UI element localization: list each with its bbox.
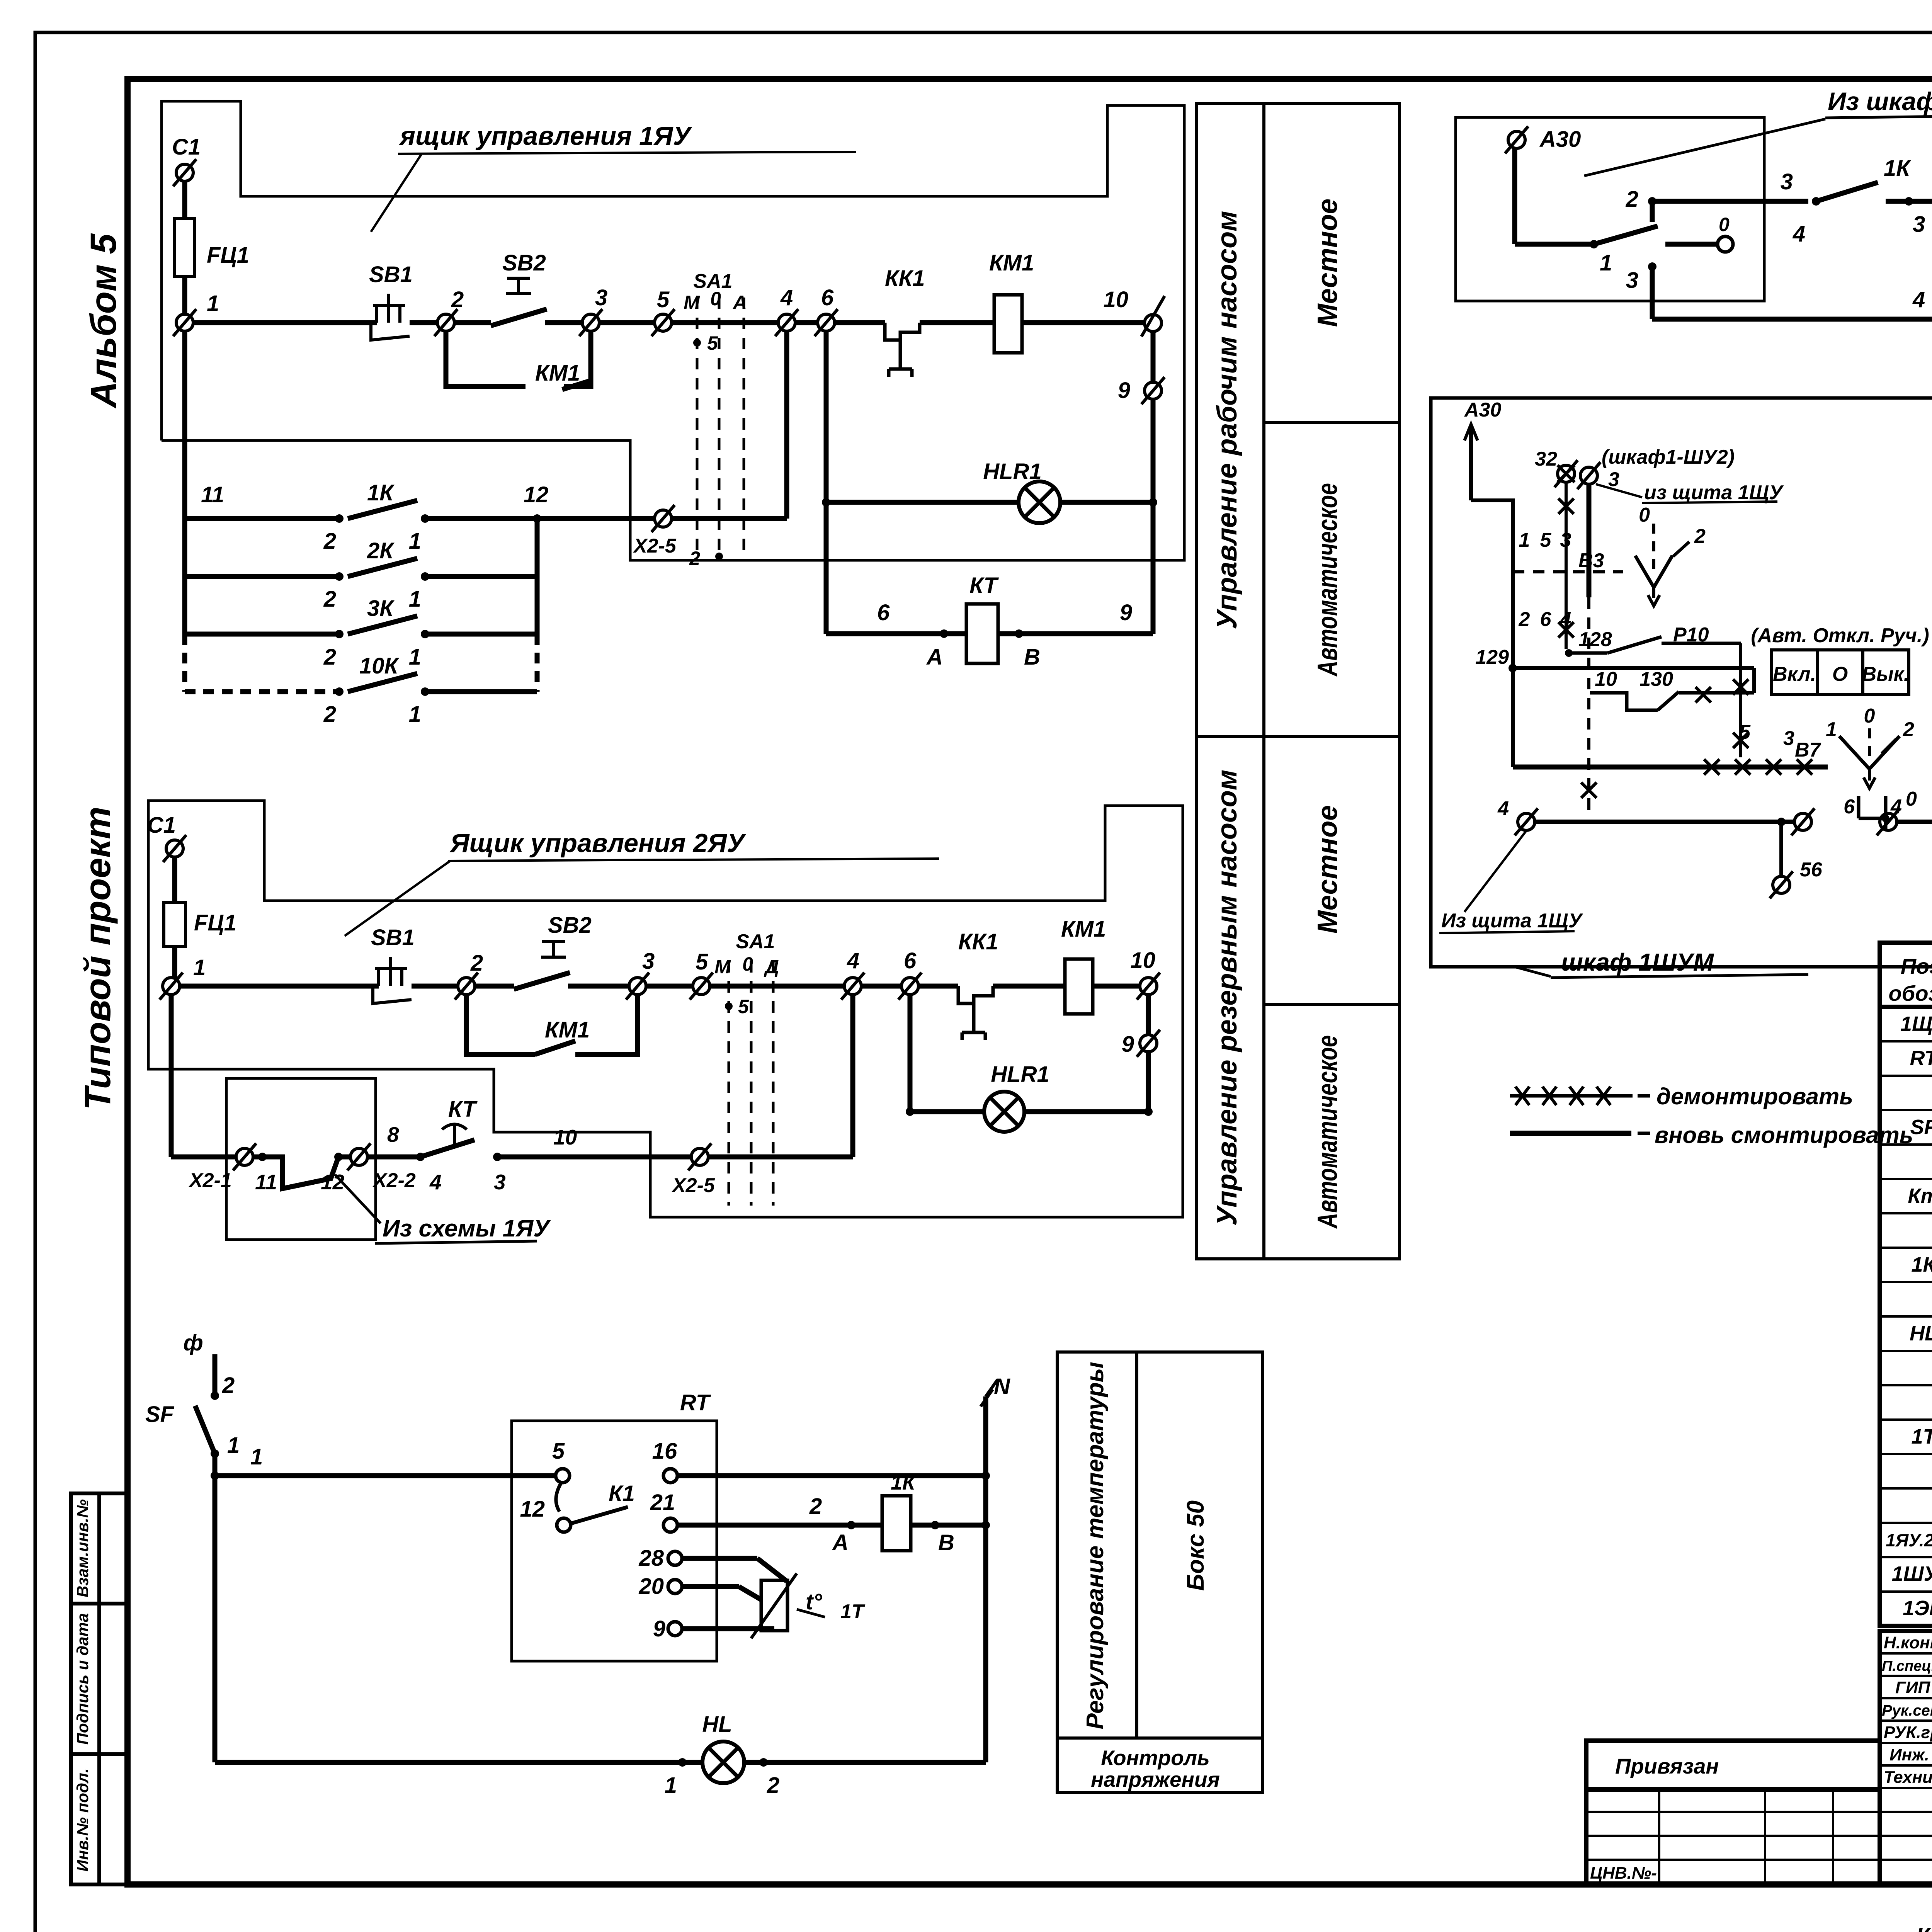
svg-text:X2-1: X2-1 xyxy=(188,1169,232,1192)
svg-text:2К: 2К xyxy=(367,538,395,563)
svg-text:SB2: SB2 xyxy=(548,913,592,938)
svg-text:HLR1: HLR1 xyxy=(991,1062,1049,1087)
svg-text:КТ: КТ xyxy=(448,1097,478,1122)
svg-text:X2-5: X2-5 xyxy=(671,1174,715,1197)
svg-text:2: 2 xyxy=(323,645,336,670)
svg-text:Из щита 1ЩУ: Из щита 1ЩУ xyxy=(1441,910,1583,932)
svg-text:Автоматическое: Автоматическое xyxy=(1312,483,1343,677)
svg-text:КМ1: КМ1 xyxy=(989,250,1034,276)
svg-text:Из шкафа 1ШУМ: Из шкафа 1ШУМ xyxy=(1828,87,1932,116)
svg-text:6: 6 xyxy=(1540,608,1552,631)
svg-text:Вкл.: Вкл. xyxy=(1773,663,1816,685)
svg-text:1ЯУ.2ЯУ: 1ЯУ.2ЯУ xyxy=(1886,1530,1932,1550)
svg-text:10К: 10К xyxy=(359,653,400,679)
svg-text:Техник: Техник xyxy=(1884,1768,1932,1787)
svg-text:КМ1: КМ1 xyxy=(1061,917,1106,942)
svg-text:1Т: 1Т xyxy=(1911,1425,1932,1448)
svg-text:1Т: 1Т xyxy=(840,1600,866,1623)
svg-text:2: 2 xyxy=(1903,718,1914,741)
svg-text:1ЩУ: 1ЩУ xyxy=(1900,1012,1932,1036)
svg-text:Управление резервным насосом: Управление резервным насосом xyxy=(1212,770,1243,1226)
svg-text:А: А xyxy=(732,292,747,313)
svg-text:шкаф 1ШУМ: шкаф 1ШУМ xyxy=(1561,948,1714,976)
svg-text:12: 12 xyxy=(524,482,549,507)
svg-text:А30: А30 xyxy=(1539,127,1581,152)
svg-text:Привязан: Привязан xyxy=(1615,1754,1719,1778)
svg-text:5: 5 xyxy=(552,1439,565,1464)
svg-text:9: 9 xyxy=(653,1616,665,1641)
svg-text:3: 3 xyxy=(1781,169,1793,194)
svg-text:обозн.: обозн. xyxy=(1888,981,1932,1005)
svg-text:5: 5 xyxy=(1540,529,1552,551)
svg-text:1К: 1К xyxy=(1884,156,1911,181)
svg-text:3: 3 xyxy=(1560,529,1571,551)
svg-text:130: 130 xyxy=(1639,668,1673,690)
svg-text:1: 1 xyxy=(1519,529,1530,551)
svg-text:Поз.: Поз. xyxy=(1901,954,1932,978)
svg-text:6: 6 xyxy=(1844,796,1855,818)
svg-text:4: 4 xyxy=(1793,221,1805,247)
svg-text:Н.контр.: Н.контр. xyxy=(1884,1633,1932,1652)
svg-text:1: 1 xyxy=(1600,250,1612,276)
svg-text:Р10: Р10 xyxy=(1673,624,1709,646)
svg-text:1: 1 xyxy=(409,587,421,612)
svg-text:SF: SF xyxy=(145,1402,175,1427)
svg-text:2: 2 xyxy=(767,1773,779,1798)
svg-text:О: О xyxy=(1832,663,1848,685)
svg-text:Альбом 5: Альбом 5 xyxy=(83,233,124,409)
svg-text:10: 10 xyxy=(1103,287,1128,312)
svg-text:2: 2 xyxy=(323,529,336,554)
svg-text:4: 4 xyxy=(1912,287,1925,312)
svg-text:4: 4 xyxy=(1497,798,1509,820)
svg-text:С1: С1 xyxy=(172,134,201,160)
svg-text:А: А xyxy=(926,645,943,670)
svg-text:RT: RT xyxy=(1910,1047,1932,1070)
svg-text:В: В xyxy=(938,1530,954,1555)
svg-text:FЦ1: FЦ1 xyxy=(194,910,236,935)
svg-text:Бокс 50: Бокс 50 xyxy=(1182,1500,1209,1591)
svg-text:4: 4 xyxy=(780,285,793,310)
svg-text:В: В xyxy=(1024,645,1040,670)
svg-text:3К: 3К xyxy=(367,596,395,621)
svg-text:3: 3 xyxy=(595,285,607,310)
svg-text:X2-5: X2-5 xyxy=(633,535,677,557)
svg-text:6: 6 xyxy=(821,285,834,310)
svg-text:0: 0 xyxy=(1639,504,1650,526)
svg-text:2: 2 xyxy=(222,1373,235,1398)
svg-text:4: 4 xyxy=(1890,796,1902,818)
svg-text:1К: 1К xyxy=(1911,1253,1932,1276)
svg-text:1К: 1К xyxy=(367,480,395,505)
svg-text:0: 0 xyxy=(710,288,721,310)
svg-text:Взам.инв.№: Взам.инв.№ xyxy=(73,1499,92,1597)
svg-text:9: 9 xyxy=(1120,600,1132,625)
svg-text:П.спец.отд: П.спец.отд xyxy=(1882,1658,1932,1674)
svg-text:10: 10 xyxy=(553,1125,577,1149)
svg-text:(Авт. Откл. Руч.): (Авт. Откл. Руч.) xyxy=(1751,624,1929,647)
svg-text:1: 1 xyxy=(250,1444,263,1469)
svg-text:1ШУМ: 1ШУМ xyxy=(1892,1562,1932,1585)
svg-text:128: 128 xyxy=(1578,628,1612,651)
svg-text:0: 0 xyxy=(1906,788,1917,810)
svg-text:КК1: КК1 xyxy=(958,929,998,954)
svg-text:HL: HL xyxy=(702,1712,732,1737)
svg-text:1: 1 xyxy=(1826,718,1837,741)
svg-text:3: 3 xyxy=(494,1170,506,1194)
svg-text:3: 3 xyxy=(1913,212,1925,237)
svg-text:10: 10 xyxy=(1595,668,1617,690)
svg-text:Типовой проект: Типовой проект xyxy=(77,806,118,1110)
svg-text:HL: HL xyxy=(1910,1322,1932,1345)
svg-text:Инж.: Инж. xyxy=(1889,1745,1929,1764)
svg-text:КМ1: КМ1 xyxy=(545,1017,590,1043)
svg-text:SA1: SA1 xyxy=(736,930,775,953)
svg-text:демонтировать: демонтировать xyxy=(1656,1083,1853,1109)
svg-text:Ящик управления 2ЯУ: Ящик управления 2ЯУ xyxy=(449,828,747,858)
svg-text:С1: С1 xyxy=(147,813,176,838)
svg-text:ГИП: ГИП xyxy=(1895,1678,1931,1697)
svg-text:5: 5 xyxy=(738,996,749,1017)
svg-text:11: 11 xyxy=(201,482,224,507)
svg-text:28: 28 xyxy=(638,1546,664,1571)
svg-text:16: 16 xyxy=(652,1439,677,1464)
svg-text:вновь смонтировать: вновь смонтировать xyxy=(1655,1122,1913,1148)
svg-text:6: 6 xyxy=(904,948,917,973)
svg-text:2: 2 xyxy=(323,587,336,612)
svg-text:Из схемы 1ЯУ: Из схемы 1ЯУ xyxy=(383,1215,551,1242)
svg-text:Регулирование температуры: Регулирование температуры xyxy=(1082,1362,1109,1729)
svg-text:t°: t° xyxy=(806,1589,822,1614)
svg-text:В3: В3 xyxy=(1578,549,1604,572)
svg-text:0: 0 xyxy=(1864,705,1875,727)
svg-text:20: 20 xyxy=(638,1574,664,1599)
svg-text:1: 1 xyxy=(665,1773,677,1798)
svg-text:Местное: Местное xyxy=(1312,199,1343,327)
svg-text:21: 21 xyxy=(650,1490,675,1515)
svg-text:Вык.: Вык. xyxy=(1862,663,1910,685)
svg-text:1ЭВ: 1ЭВ xyxy=(1903,1597,1932,1620)
svg-text:8: 8 xyxy=(387,1122,399,1146)
svg-text:М: М xyxy=(714,956,731,978)
svg-text:1: 1 xyxy=(409,702,421,727)
svg-text:Подпись и дата: Подпись и дата xyxy=(73,1613,92,1745)
svg-text:В7: В7 xyxy=(1795,739,1821,761)
svg-text:2: 2 xyxy=(809,1494,822,1519)
svg-text:А30: А30 xyxy=(1464,399,1501,421)
svg-text:ф: ф xyxy=(183,1330,203,1355)
svg-text:9: 9 xyxy=(1122,1032,1134,1057)
svg-text:РУК.гр.: РУК.гр. xyxy=(1884,1723,1932,1742)
svg-text:ЦНВ.№-: ЦНВ.№- xyxy=(1590,1864,1657,1883)
svg-text:12: 12 xyxy=(321,1170,345,1194)
svg-text:2: 2 xyxy=(1519,608,1530,631)
svg-text:11: 11 xyxy=(255,1170,277,1194)
svg-text:(шкаф1-ШУ2): (шкаф1-ШУ2) xyxy=(1602,446,1735,468)
svg-text:5: 5 xyxy=(1739,721,1751,743)
svg-text:HLR1: HLR1 xyxy=(983,459,1041,484)
svg-text:2: 2 xyxy=(689,548,700,569)
svg-text:КТ: КТ xyxy=(969,573,999,598)
svg-text:КК1: КК1 xyxy=(885,266,925,291)
svg-text:3: 3 xyxy=(1783,727,1794,750)
svg-text:0: 0 xyxy=(1719,214,1730,235)
svg-text:1: 1 xyxy=(193,955,206,980)
svg-text:9: 9 xyxy=(1118,378,1130,403)
svg-text:Инв.№ подл.: Инв.№ подл. xyxy=(73,1768,92,1871)
svg-text:X2-2: X2-2 xyxy=(372,1169,416,1192)
svg-text:RT: RT xyxy=(680,1390,711,1415)
svg-text:SB1: SB1 xyxy=(371,925,415,950)
svg-text:2: 2 xyxy=(1694,525,1706,548)
svg-text:FЦ1: FЦ1 xyxy=(207,243,249,268)
svg-text:56: 56 xyxy=(1800,859,1823,881)
svg-text:Управление рабочим насосом: Управление рабочим насосом xyxy=(1212,211,1243,629)
svg-text:Кт: Кт xyxy=(1908,1184,1932,1207)
svg-text:3: 3 xyxy=(642,949,655,974)
svg-text:2: 2 xyxy=(470,951,483,976)
svg-text:1: 1 xyxy=(409,645,421,670)
svg-text:5: 5 xyxy=(707,332,718,354)
svg-text:из щита 1ЩУ: из щита 1ЩУ xyxy=(1644,481,1784,504)
svg-text:Рук.сект.: Рук.сект. xyxy=(1882,1702,1932,1719)
svg-text:5: 5 xyxy=(696,949,708,975)
svg-text:1К: 1К xyxy=(891,1471,917,1494)
svg-text:0: 0 xyxy=(742,953,753,975)
svg-text:N: N xyxy=(994,1374,1010,1399)
svg-text:129: 129 xyxy=(1475,646,1509,668)
svg-text:SB2: SB2 xyxy=(502,250,546,276)
svg-text:SB1: SB1 xyxy=(369,262,413,287)
svg-text:ящик управления 1ЯУ: ящик управления 1ЯУ xyxy=(398,121,692,151)
svg-text:А: А xyxy=(832,1530,849,1555)
svg-text:3: 3 xyxy=(1626,268,1638,293)
svg-text:SF: SF xyxy=(1910,1116,1932,1139)
svg-text:2: 2 xyxy=(1626,187,1638,212)
svg-text:10: 10 xyxy=(1130,948,1155,973)
svg-text:КМ1: КМ1 xyxy=(535,361,580,386)
svg-text:1: 1 xyxy=(207,291,219,316)
svg-text:1: 1 xyxy=(409,529,421,554)
svg-text:Местное: Местное xyxy=(1312,805,1343,934)
svg-text:4: 4 xyxy=(429,1170,442,1194)
svg-text:6: 6 xyxy=(877,600,890,625)
svg-text:5: 5 xyxy=(657,287,670,312)
svg-text:1: 1 xyxy=(227,1433,240,1458)
svg-text:32: 32 xyxy=(1535,448,1557,470)
svg-text:напряжения: напряжения xyxy=(1091,1767,1220,1791)
svg-text:М: М xyxy=(684,292,700,313)
svg-text:Д: Д xyxy=(764,956,779,978)
svg-text:2: 2 xyxy=(451,287,464,312)
svg-text:Копировал Омельченко: Копировал Омельченко xyxy=(1916,1923,1932,1932)
svg-text:4: 4 xyxy=(847,948,859,973)
svg-text:Контроль: Контроль xyxy=(1101,1746,1210,1770)
svg-text:Автоматическое: Автоматическое xyxy=(1312,1035,1343,1229)
svg-text:2: 2 xyxy=(323,702,336,727)
svg-text:К1: К1 xyxy=(609,1481,635,1506)
svg-text:12: 12 xyxy=(520,1497,545,1522)
svg-text:4: 4 xyxy=(1560,608,1571,631)
